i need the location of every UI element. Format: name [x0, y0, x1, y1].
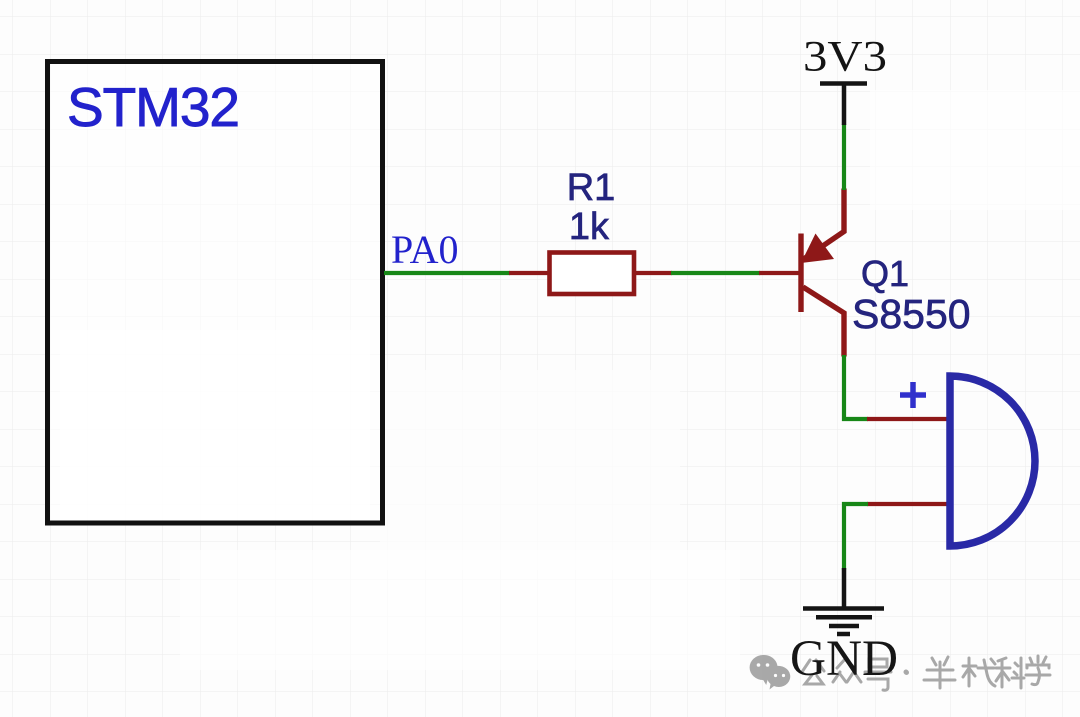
svg-text:S8550: S8550	[852, 291, 971, 337]
watermark text 公众号·半栈科学 (approximated strokes)	[802, 656, 1050, 690]
transistor Q1	[801, 189, 844, 357]
watermark wechat icon	[750, 655, 791, 690]
科	[996, 658, 1024, 688]
buzzer LS1 body	[950, 376, 1035, 546]
wire buzzer bottom green	[844, 504, 868, 570]
emitter arrow	[801, 234, 834, 264]
svg-text:R1: R1	[567, 167, 616, 209]
wire collector down green	[844, 355, 868, 419]
wire green mid	[671, 271, 760, 275]
wire PA0 green	[384, 271, 510, 275]
component U1 STM32 box	[48, 62, 383, 524]
resistor R1	[550, 253, 635, 295]
svg-text:STM32: STM32	[67, 76, 240, 138]
base bar	[798, 234, 803, 313]
svg-text:PA0: PA0	[391, 227, 458, 272]
collector diagonal	[803, 287, 844, 357]
公	[802, 660, 824, 684]
svg-text:GND: GND	[790, 631, 898, 687]
wire R1 right dark red	[634, 271, 672, 275]
gnd stub black	[842, 568, 847, 608]
power stub black	[842, 82, 847, 125]
众	[833, 658, 861, 682]
wire PA0 to R1 dark red	[509, 271, 549, 275]
学	[1026, 656, 1050, 685]
svg-text:Q1: Q1	[861, 253, 909, 294]
wire buzzer top pin dark red	[867, 417, 948, 421]
ground	[803, 609, 884, 635]
wire buzzer bottom pin dark red	[867, 502, 948, 506]
label +	[900, 382, 926, 408]
半	[924, 657, 955, 688]
power 3V3 bar	[820, 81, 867, 86]
faded grid washes	[380, 370, 680, 570]
dot	[904, 670, 910, 676]
svg-text:3V3: 3V3	[803, 34, 887, 81]
wire emitter to 3V3: green	[842, 124, 846, 190]
栈	[963, 658, 995, 686]
svg-text:1k: 1k	[569, 206, 610, 248]
号	[865, 659, 891, 690]
wire base dark red	[759, 271, 800, 275]
emitter diagonal	[803, 189, 844, 260]
